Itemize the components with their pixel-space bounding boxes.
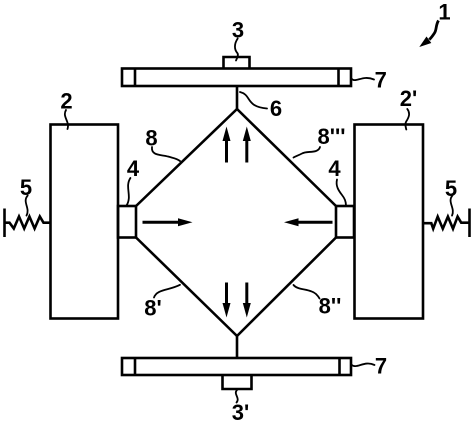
svg-text:3': 3'	[232, 400, 249, 425]
svg-text:8'': 8''	[319, 294, 342, 319]
svg-text:8': 8'	[144, 296, 161, 321]
svg-text:7: 7	[375, 68, 387, 93]
svg-text:3: 3	[232, 18, 244, 43]
svg-text:4: 4	[328, 156, 341, 181]
svg-text:1: 1	[438, 0, 450, 25]
svg-text:8''': 8'''	[318, 124, 346, 149]
svg-text:2: 2	[60, 89, 72, 114]
svg-text:5: 5	[445, 176, 457, 201]
svg-text:2': 2'	[400, 86, 417, 111]
svg-text:6: 6	[270, 96, 282, 121]
svg-text:7: 7	[375, 354, 387, 379]
svg-text:4: 4	[127, 156, 140, 181]
svg-text:8: 8	[145, 126, 157, 151]
svg-text:5: 5	[20, 175, 32, 200]
